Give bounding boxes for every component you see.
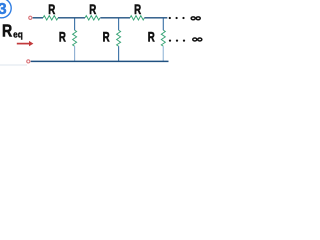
- resistor R2 top (zigzag): [85, 16, 100, 20]
- shunt resistor 2: top lead: [118, 18, 120, 30]
- shunt resistor 2 (vertical zigzag): [117, 30, 121, 46]
- shunt resistor 3 (vertical zigzag): [161, 30, 165, 46]
- arrow (red, pointing right): [17, 41, 34, 46]
- wire top rail segment 4: [144, 17, 167, 19]
- svg-text:R: R: [103, 29, 110, 45]
- wire top rail segment 2: [58, 17, 85, 19]
- shunt resistor 2: bottom lead: [118, 46, 120, 61]
- svg-text:eq: eq: [13, 30, 23, 41]
- shunt resistor 1: top lead: [74, 18, 76, 30]
- svg-text:3: 3: [0, 1, 7, 18]
- svg-text:R: R: [2, 21, 12, 41]
- wire bottom rail: [31, 60, 169, 62]
- svg-text:R: R: [59, 29, 66, 45]
- svg-text:R: R: [134, 1, 141, 17]
- terminal top-left: [29, 16, 32, 19]
- svg-text:R: R: [48, 1, 55, 17]
- wire top rail segment 1: [33, 17, 43, 19]
- resistor R3 top (zigzag): [130, 16, 144, 20]
- faint underline bottom-left: [0, 64, 27, 66]
- ellipsis dots middle row: [169, 40, 171, 42]
- terminal bottom-left: [27, 60, 30, 63]
- infinity top row: [191, 17, 200, 20]
- resistor R1 top (zigzag): [43, 16, 58, 20]
- wire top rail segment 3: [100, 17, 130, 19]
- problem number badge circle: [0, 0, 11, 18]
- ellipsis dots top row: [169, 17, 171, 19]
- shunt resistor 1 (vertical zigzag): [73, 30, 77, 46]
- shunt resistor 3: top lead: [162, 18, 164, 30]
- shunt resistor 3: bottom lead: [162, 46, 164, 61]
- shunt resistor 1: bottom lead: [74, 46, 76, 61]
- infinity middle row: [193, 38, 202, 41]
- svg-text:R: R: [89, 1, 96, 17]
- svg-text:R: R: [148, 29, 155, 45]
